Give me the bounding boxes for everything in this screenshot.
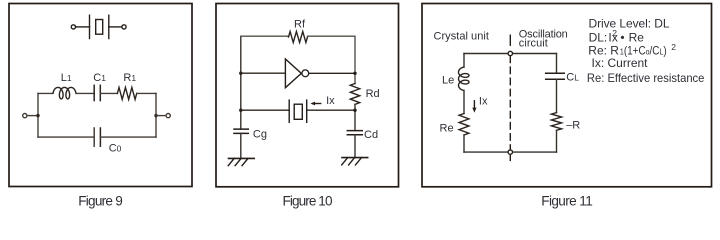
wire: left stub <box>27 115 38 117</box>
inverter output bubble <box>302 70 309 77</box>
node B junction dot right <box>154 114 157 117</box>
captions <box>78 194 593 209</box>
node A junction dot left <box>36 114 39 117</box>
ground (Cd) <box>342 157 368 159</box>
svg-text:DL:: DL: <box>589 31 608 45</box>
svg-text:Ix: Ix <box>479 95 488 107</box>
crystal Y1 symbol (top of Figure 9) <box>71 15 126 38</box>
current arrow Ix (fig10) <box>313 103 321 105</box>
wire: left rail mid <box>463 90 465 113</box>
wire: fig11 bottom wire <box>464 151 557 153</box>
op-amp U1 inverter triangle <box>285 59 301 88</box>
svg-text:C1: C1 <box>93 72 106 84</box>
capacitor C0 <box>93 128 95 146</box>
dashed separator line <box>509 35 511 45</box>
svg-text:Rf: Rf <box>294 19 306 31</box>
inductor Le <box>459 67 470 90</box>
node: left terminal of equivalent circuit <box>23 114 27 118</box>
svg-text:Le: Le <box>442 74 454 86</box>
svg-text:Drive Level: DL: Drive Level: DL <box>589 16 670 30</box>
capacitor Cg <box>234 128 248 130</box>
resistor Rd <box>350 84 359 105</box>
node: crystal row left dot <box>239 109 242 112</box>
wire: top loop left vertical <box>240 36 242 129</box>
labels figure 9 <box>61 72 137 154</box>
crystal X1 right electrode <box>306 100 308 122</box>
capacitor Cd <box>347 130 362 132</box>
wire: inverter input <box>241 72 286 74</box>
wire: top wire left of Rf <box>241 35 289 37</box>
wire: left rail top <box>463 54 465 68</box>
node: bottom circle on dashed line <box>508 150 512 154</box>
svg-text:2: 2 <box>671 42 676 52</box>
node: inverter input junction <box>239 72 242 75</box>
svg-text:Crystal unit: Crystal unit <box>434 31 489 43</box>
wire: bottom branch left <box>38 136 94 138</box>
node: top circle on dashed line <box>508 51 512 55</box>
svg-text:Re: Effective resistance: Re: Effective resistance <box>587 71 705 85</box>
svg-text:–R: –R <box>566 119 580 131</box>
wire: left rail bottom <box>463 135 465 152</box>
crystal X1 left electrode <box>288 100 290 122</box>
svg-text:L1: L1 <box>61 72 72 84</box>
resistor -R <box>551 113 561 131</box>
svg-text:Ix: Current: Ix: Current <box>592 56 649 70</box>
wire: top wire right of Rf, corner down <box>308 36 356 83</box>
svg-text:•: • <box>620 31 624 45</box>
wire: below Rd <box>354 104 356 130</box>
resistor R1 <box>117 87 136 99</box>
wire: right rail top <box>556 54 558 74</box>
wire: crystal row left <box>241 109 289 111</box>
inductor L1 <box>53 87 76 99</box>
capacitor C1 <box>93 85 95 100</box>
wire <box>100 92 117 94</box>
svg-text:2: 2 <box>612 28 617 38</box>
ground (Cg) <box>229 157 255 159</box>
labels figure 11 <box>434 28 581 134</box>
wire: Cd to ground <box>354 135 356 158</box>
wire: right stub <box>156 115 166 117</box>
resistor Rf <box>289 32 308 43</box>
svg-text:R1: R1 <box>123 72 136 84</box>
wire: bottom branch right <box>100 136 156 138</box>
wire: right vertical <box>155 93 157 137</box>
wire: left vertical <box>37 93 39 137</box>
drive level text block <box>587 16 705 85</box>
wire <box>76 92 94 94</box>
figure 9 border frame <box>9 4 192 187</box>
svg-text:Re: Re <box>440 122 454 134</box>
wire: inverter output <box>309 72 355 74</box>
labels figure 10 <box>253 19 380 142</box>
wire: Cg to ground <box>240 133 242 158</box>
wire: fig11 top wire <box>464 53 557 55</box>
svg-text:Ix: Ix <box>326 95 335 107</box>
node: crystal row right dot <box>353 109 356 112</box>
capacitor CL <box>546 72 565 74</box>
svg-text:Figure 10: Figure 10 <box>283 194 333 209</box>
svg-text:Rd: Rd <box>366 88 380 100</box>
figure 10 border frame <box>216 4 399 187</box>
svg-text:C0: C0 <box>109 142 122 154</box>
wire <box>137 92 156 94</box>
svg-text:Figure 9: Figure 9 <box>78 194 123 209</box>
figure 11 border frame <box>422 4 712 187</box>
node: right terminal <box>166 114 170 118</box>
resistor Re <box>459 114 469 136</box>
node: output junction dot <box>353 72 356 75</box>
wire: crystal row right <box>307 109 355 111</box>
svg-text:Re: Re <box>629 31 645 45</box>
current arrow Ix (fig11) <box>473 101 475 109</box>
svg-text:Cd: Cd <box>364 129 378 141</box>
svg-text:Figure 11: Figure 11 <box>541 194 593 209</box>
svg-text:CL: CL <box>566 71 579 83</box>
svg-text:circuit: circuit <box>519 38 548 50</box>
svg-text:Cg: Cg <box>253 128 267 140</box>
wire: right rail bottom <box>556 130 558 152</box>
crystal X1 body <box>294 104 302 119</box>
wire: top branch lead-in <box>38 92 53 94</box>
wire: right rail mid <box>556 79 558 112</box>
